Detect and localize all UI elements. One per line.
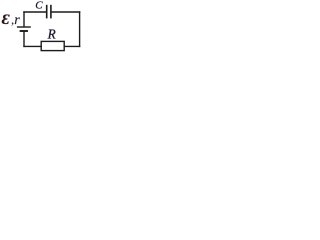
wire bottom-right segment (corner to resistor) (64, 45, 79, 47)
wire left side lower (bottom corner up to battery short plate) (23, 32, 25, 47)
wire left side upper (battery long plate to top-left corner) (23, 12, 25, 27)
svg-text:C: C (35, 0, 43, 11)
capacitor C left plate (46, 6, 48, 18)
capacitor C right plate (50, 6, 52, 18)
svg-text:r: r (14, 13, 20, 28)
wire right side (79, 12, 81, 46)
battery long plate (positive terminal) (18, 26, 31, 28)
resistor R box (41, 41, 64, 50)
svg-text:Ɛ: Ɛ (2, 12, 10, 28)
wire top-right segment (capacitor right plate to top-right corner) (52, 11, 80, 13)
wire top-left segment (battery top to capacitor left plate) (24, 11, 46, 13)
svg-text:R: R (47, 26, 56, 41)
battery short plate (negative terminal) (21, 30, 27, 32)
wire bottom-left segment (resistor to bottom-left corner) (24, 45, 41, 47)
